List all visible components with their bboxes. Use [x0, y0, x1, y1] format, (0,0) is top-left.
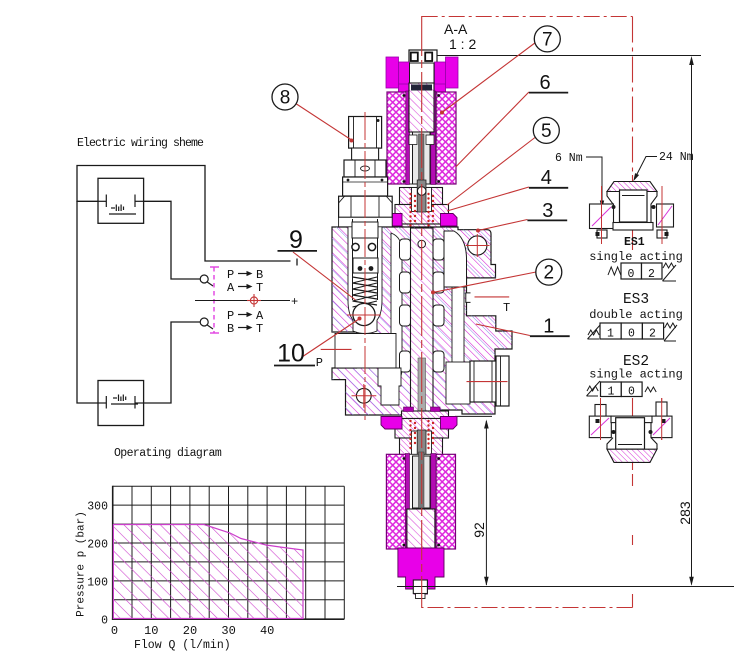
svg-text:double acting: double acting [589, 308, 683, 322]
red crosshair node [247, 294, 261, 307]
dimension 283 [689, 56, 694, 586]
extension line for 92 [455, 415, 492, 417]
svg-text:single acting: single acting [589, 250, 683, 264]
main valve centerline [421, 16, 423, 608]
red stud centerlines [601, 186, 603, 244]
svg-text:2: 2 [648, 268, 655, 281]
bottom nut [413, 580, 427, 594]
leader line 9 [293, 252, 356, 300]
svg-text:1: 1 [543, 316, 554, 338]
coil right [436, 92, 456, 184]
svg-text:0: 0 [628, 328, 635, 341]
spool pockets left [400, 239, 445, 372]
coil left [387, 92, 408, 184]
bottom push rod [419, 452, 425, 508]
svg-text:A: A [227, 281, 235, 295]
dimension 92 [484, 420, 489, 586]
svg-text:single acting: single acting [589, 368, 683, 382]
leader line 6 [456, 92, 529, 167]
flange slopes [607, 192, 657, 223]
section boundary rectangle [422, 17, 633, 608]
terminal circle 1 [200, 275, 208, 283]
svg-text:ES1: ES1 [624, 236, 645, 249]
svg-text:T: T [256, 281, 263, 295]
svg-text:30: 30 [221, 624, 235, 638]
ES column centerline solid segments [632, 175, 634, 250]
wings [589, 416, 611, 438]
leader line 10 [302, 319, 359, 357]
P chamber [335, 334, 396, 369]
coil inner white column [408, 92, 437, 184]
bottom armature tube [413, 456, 431, 508]
seal blocks [404, 231, 414, 236]
ball crosshair [347, 314, 381, 316]
svg-text:P: P [227, 268, 234, 282]
slopes [607, 438, 657, 450]
bottom tube wall strips [405, 454, 409, 550]
svg-text:8: 8 [280, 88, 291, 109]
cap springs (red dotted) [409, 193, 434, 227]
leader line 8 [297, 104, 352, 140]
svg-text:1 : 2: 1 : 2 [449, 36, 476, 52]
callout 2 [536, 259, 562, 285]
terminal circle 2 [200, 318, 208, 326]
tick under 9 line [296, 259, 298, 266]
svg-text:B: B [227, 322, 234, 336]
cap bore [412, 188, 432, 212]
solenoid top magenta tiers [386, 57, 399, 88]
leader line 1 [476, 324, 530, 336]
callout 5 [533, 117, 559, 143]
bottom bar [613, 223, 653, 231]
ES1 symbol [608, 263, 676, 281]
svg-text:Operating diagram: Operating diagram [114, 447, 222, 460]
bottom cap springs (red dotted) [409, 420, 434, 449]
svg-text:Electric wiring sheme: Electric wiring sheme [77, 137, 204, 150]
svg-text:0: 0 [111, 624, 118, 638]
relief bore walls [352, 219, 354, 300]
rod end ball [417, 187, 426, 196]
tube wall strips [406, 91, 410, 185]
svg-text:40: 40 [260, 624, 274, 638]
svg-text:10: 10 [277, 340, 305, 368]
leader line 3 [478, 220, 527, 231]
svg-text:2: 2 [544, 263, 555, 284]
bore [620, 190, 648, 222]
top bar [611, 416, 652, 423]
J passage top right [444, 231, 467, 287]
plug chamber [446, 362, 470, 404]
spool stem [418, 358, 426, 420]
chart operating region hatch [113, 525, 303, 619]
top reference line [437, 55, 701, 57]
svg-text:Pressure p (bar): Pressure p (bar) [76, 511, 88, 617]
svg-text:A: A [256, 309, 264, 323]
white recess under hex [339, 217, 393, 227]
plunger [409, 83, 434, 132]
svg-text:T: T [256, 322, 263, 336]
bottom coil inner column [407, 454, 436, 549]
chart y labels [87, 501, 108, 628]
right gallery channel [452, 242, 464, 384]
stem between nut and plunger [410, 63, 435, 84]
svg-text:1: 1 [607, 328, 614, 341]
left wing [590, 204, 614, 229]
o-ring dots [612, 205, 616, 209]
bottom cap magenta wing left [381, 417, 402, 430]
ES3 symbol [588, 323, 678, 341]
svg-text:0: 0 [628, 386, 635, 399]
svg-text:100: 100 [87, 576, 108, 589]
wire outer loop [77, 166, 291, 262]
plug assembly [470, 361, 496, 402]
neck [352, 148, 379, 160]
svg-text:10: 10 [144, 624, 158, 638]
svg-text:P: P [316, 356, 323, 370]
cap solid magenta wings [381, 214, 402, 227]
bottom tip [416, 594, 426, 599]
bottom coil right [436, 454, 456, 549]
svg-text:7: 7 [542, 29, 553, 50]
bottom cap magenta wing right [441, 417, 458, 430]
ES2 part drawing (inverted) [589, 398, 672, 462]
axis line with crosshair [195, 300, 290, 302]
T port red centerline [475, 296, 510, 298]
svg-text:B: B [256, 268, 263, 282]
armature tube [413, 132, 431, 184]
callout 7 [534, 26, 560, 52]
relief internals: spring seat [353, 258, 378, 273]
svg-text:283: 283 [677, 501, 693, 525]
wire to terminal 1 [144, 201, 200, 279]
wide hex [339, 196, 393, 217]
svg-text:9: 9 [289, 226, 303, 254]
svg-text:6: 6 [539, 72, 550, 94]
ES2 symbol [587, 381, 657, 399]
bottom push rod [417, 430, 426, 462]
hex nut [344, 160, 386, 177]
svg-text:T: T [503, 301, 510, 315]
bolt hole crosshair lower-left [352, 384, 377, 408]
spool [411, 228, 434, 452]
relief internals: adjusting screw [352, 222, 378, 238]
svg-text:92: 92 [471, 522, 487, 538]
bottom cap bore [412, 431, 432, 455]
collar [343, 177, 388, 196]
magenta dashed separator [210, 267, 219, 333]
callout 8 [272, 84, 298, 110]
feet top [595, 405, 606, 417]
svg-text:4: 4 [541, 167, 552, 189]
T recess notch [466, 293, 471, 303]
bottom end cap [398, 548, 444, 594]
bolt hole crosshair upper-right [466, 234, 490, 257]
P A B T rows [227, 268, 264, 336]
svg-text:P: P [227, 309, 234, 323]
push rod [419, 134, 425, 190]
svg-text:0: 0 [628, 268, 635, 281]
chart x labels [111, 624, 275, 638]
svg-text:A-A: A-A [444, 21, 468, 37]
relief ball [353, 303, 375, 325]
left gallery channel [391, 233, 402, 386]
svg-text:200: 200 [87, 539, 108, 552]
ES1 part drawing [590, 182, 674, 245]
bottom plunger [407, 509, 435, 558]
svg-text:300: 300 [87, 501, 108, 514]
spool top ball [418, 240, 426, 248]
bottom reference line overlay [397, 586, 450, 588]
bolt hole lower-left [356, 388, 371, 403]
plug red centerline [467, 381, 508, 383]
leader line 4 [447, 187, 529, 211]
bolt hole upper-right [468, 236, 487, 255]
wire to terminal 2 [144, 322, 200, 403]
bottom cap hatched [607, 449, 657, 462]
svg-text:0: 0 [101, 614, 108, 627]
svg-text:3: 3 [542, 200, 553, 222]
feet [597, 230, 607, 238]
relief spring [353, 277, 378, 307]
right wing [657, 204, 674, 227]
component box 1 [98, 178, 144, 223]
svg-text:2: 2 [649, 328, 656, 341]
chart grid [113, 486, 345, 619]
component box 2 [98, 381, 144, 426]
svg-text:20: 20 [183, 624, 197, 638]
top nut [409, 50, 437, 64]
top cylinder [349, 117, 382, 149]
leader line 2 [433, 272, 536, 292]
relief valve bore (white) [348, 217, 382, 334]
svg-text:5: 5 [541, 121, 552, 142]
svg-text:1: 1 [608, 386, 615, 399]
cap top hatched [607, 182, 657, 192]
svg-text:24 Nm: 24 Nm [659, 151, 694, 164]
bottom coil left [386, 454, 407, 549]
push rod into cap [417, 180, 426, 212]
relief centerline [364, 112, 366, 420]
leader line 7 [442, 43, 536, 113]
white foot under P chamber [378, 368, 401, 405]
svg-text:6 Nm: 6 Nm [555, 152, 583, 165]
P port red centerline [321, 348, 352, 350]
svg-text:ES3: ES3 [623, 292, 649, 308]
body blue hatch accent overlay [332, 227, 512, 415]
bore [616, 418, 645, 450]
leader line 5 [447, 138, 535, 206]
bottom reference line [397, 586, 734, 588]
svg-text:Flow Q (l/min): Flow Q (l/min) [134, 639, 231, 652]
svg-text:+: + [291, 295, 298, 309]
bottom seal blocks [404, 407, 414, 412]
